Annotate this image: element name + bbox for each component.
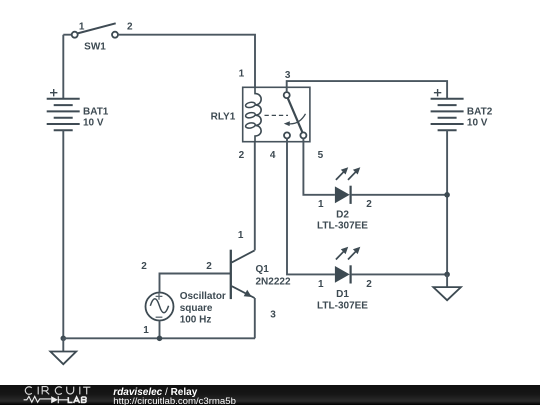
RLY1 pin 3 label xyxy=(285,70,291,81)
relay RLY1 box xyxy=(243,87,310,141)
OSC pin 2 label xyxy=(141,261,147,272)
wire: Q1 emitter down to bottom net xyxy=(254,298,256,338)
relay RLY1 switch blade xyxy=(288,98,303,133)
wire: Q1 collector up to relay coil pin2 xyxy=(254,142,256,251)
relay RLY1 actuation dashed link xyxy=(265,114,289,116)
OSC pin 1 label xyxy=(143,325,149,336)
ground (right) xyxy=(433,287,461,300)
wire: SW1 pin2 to relay coil pin1 xyxy=(118,35,255,88)
relay RLY1 coil xyxy=(245,87,261,141)
Q1 pin 2 label xyxy=(206,261,212,272)
relay RLY1 actuation arrow xyxy=(284,114,306,126)
BAT2 reference label xyxy=(467,106,493,117)
RLY1 pin 1 label xyxy=(239,69,245,80)
relay RLY1 contact: common terminal xyxy=(284,92,290,98)
Q1 value label 2N2222 xyxy=(256,277,291,288)
relay RLY1 contact: NO terminal xyxy=(300,132,306,138)
D1 reference label xyxy=(336,289,349,300)
Q1 pin 1 label xyxy=(238,230,244,241)
RLY1 reference label xyxy=(211,111,236,122)
transistor Q1 xyxy=(231,250,255,299)
Q1 pin 3 label xyxy=(270,309,276,320)
CircuitLab logo resistor-diode line xyxy=(24,396,68,403)
footer bar xyxy=(0,385,540,405)
node: junction dot at oscillator bottom xyxy=(157,336,163,342)
OSC value label 100 Hz xyxy=(180,315,212,326)
footer author/title: rdaviselec / Relay xyxy=(113,387,197,398)
D2 reference label xyxy=(336,209,349,220)
wire: SW1 pin1 to BAT1 top (vertical left) xyxy=(63,35,71,99)
relay RLY1 contact: NC terminal xyxy=(284,132,290,138)
SW1 pin 2 label xyxy=(127,21,133,32)
D2 pin 2 label xyxy=(366,199,372,210)
LED D2 xyxy=(335,167,360,204)
CircuitLab logo LAB xyxy=(68,397,86,403)
wire: bottom horizontal (emitter net) xyxy=(63,337,255,339)
LED D1 xyxy=(335,247,360,284)
SW1 reference label xyxy=(84,41,106,52)
voltage source OSC (Oscillator) xyxy=(146,293,174,321)
D1 value label LTL-307EE xyxy=(317,300,368,311)
footer url xyxy=(113,396,236,405)
D1 pin 2 label xyxy=(366,279,372,290)
wire: relay pin3 up and over to BAT2 plus xyxy=(287,81,447,99)
OSC label square xyxy=(180,303,213,314)
node: junction dot D2/BAT2 xyxy=(444,192,450,198)
wire: relay pin4 down and right to D1 xyxy=(287,138,335,274)
BAT2 value label 10 V xyxy=(467,118,488,129)
wire: BAT2 bottom down to right ground net xyxy=(446,130,448,274)
RLY1 pin 5 label xyxy=(318,150,324,161)
node: junction dot at BAT1/emitter net xyxy=(61,336,67,342)
RLY1 pin 4 label xyxy=(270,150,276,161)
svg-text:http://circuitlab.com/c3rma5b: http://circuitlab.com/c3rma5b xyxy=(113,396,236,405)
OSC name label Oscillator xyxy=(180,291,226,302)
wire: D2 cathode to BAT2 net xyxy=(351,194,448,196)
D1 pin 1 label xyxy=(318,279,324,290)
CircuitLab logo CIRCUIT xyxy=(25,387,90,395)
SW1 pin 1 label xyxy=(79,22,85,33)
wire: relay pin5 down and right to D2 xyxy=(303,138,335,194)
battery BAT2 xyxy=(431,89,464,130)
D2 value label LTL-307EE xyxy=(317,221,368,232)
battery BAT1 xyxy=(47,89,80,130)
D2 pin 1 label xyxy=(318,199,324,210)
wire: oscillator pin1 down xyxy=(159,321,161,339)
switch SW1 xyxy=(72,23,118,37)
Q1 reference label xyxy=(256,264,270,275)
node: junction dot D1/ground xyxy=(444,272,450,278)
wire: BAT1 bottom down to ground node xyxy=(62,130,64,338)
wire: D1 cathode to ground net xyxy=(351,273,448,275)
BAT1 reference label xyxy=(83,106,109,117)
wire: oscillator pin2 to Q1 base xyxy=(160,274,231,293)
BAT1 value label 10 V xyxy=(83,118,104,129)
wire: stub to right ground xyxy=(446,274,448,287)
RLY1 pin 2 label xyxy=(239,150,245,161)
ground (left) xyxy=(50,352,76,365)
wire: stub to left ground xyxy=(62,338,64,351)
